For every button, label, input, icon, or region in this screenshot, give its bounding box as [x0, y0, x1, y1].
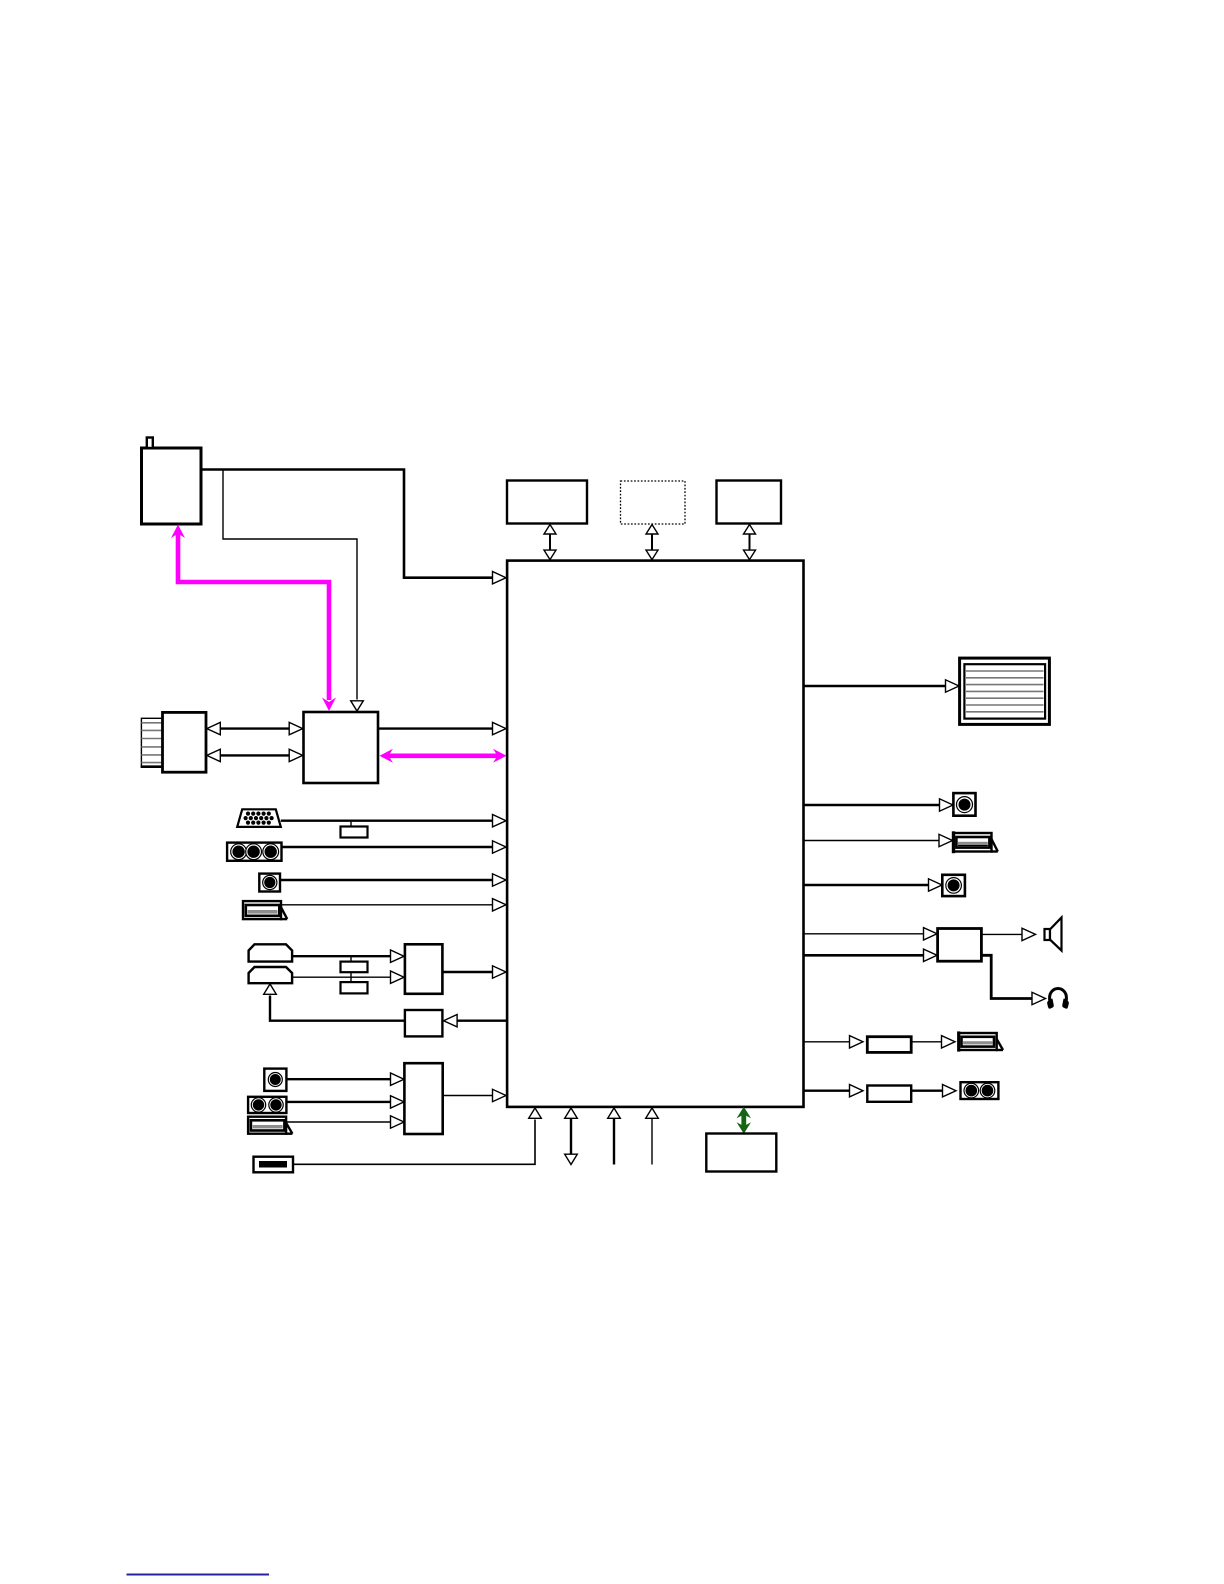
SCART connector 2 — [249, 967, 293, 983]
stereo RCA pair output — [961, 1082, 999, 1099]
wire SCART2 to AV decoder — [292, 971, 404, 983]
HDMI out buffer block — [867, 1037, 911, 1053]
component video jacks (YPbPr) — [227, 843, 281, 861]
audio amplifier block — [938, 929, 982, 962]
wire main IC to encoder block — [444, 1015, 507, 1027]
wire encoder to SCART2 — [264, 984, 405, 1021]
footer hyperlink rule — [127, 1574, 270, 1576]
video out RCA jack — [953, 793, 975, 816]
wire main IC to LCD panel — [804, 680, 960, 692]
HDMI input connector 2 — [248, 1117, 292, 1134]
AV decoder block — [405, 944, 443, 994]
wire buffer to stereo RCA out — [911, 1085, 956, 1097]
wire tuner to main IC — [201, 470, 506, 584]
audio out buffer block — [867, 1086, 911, 1102]
bus memory2 / main IC — [646, 525, 658, 560]
service port connector — [254, 1157, 294, 1173]
wire audio processor to main IC — [443, 1089, 506, 1101]
wire buffer to HDMI out 2 — [911, 1036, 955, 1048]
side AV connector (multi-pin) — [141, 712, 206, 772]
keypad block — [706, 1134, 776, 1172]
wire main IC to HDMI out 1 — [804, 834, 953, 846]
VGA DDC stub block — [341, 821, 368, 838]
memory block 2 (optional, dashed) — [621, 481, 686, 524]
speaker icon — [1045, 918, 1062, 951]
VGA D-sub connector — [237, 809, 281, 827]
audio RCA jack input — [264, 1069, 286, 1091]
wire composite to main IC — [280, 874, 506, 886]
wire SCART1 to AV decoder — [292, 950, 404, 962]
wire amp to speaker — [981, 928, 1035, 940]
bus memory3 / main IC — [744, 525, 756, 560]
wire HDMI2 to audio processor — [287, 1116, 405, 1128]
SCART termination stub blocks — [341, 956, 368, 993]
wire VGA to main IC — [281, 815, 506, 827]
memory block 1 — [507, 481, 587, 524]
wire main IC to audio out buffer — [804, 1085, 864, 1097]
headphone icon — [1047, 989, 1069, 1009]
SCART connector 1 — [249, 944, 293, 961]
tuner block U_TUNER — [142, 438, 202, 525]
composite out RCA jack — [942, 875, 965, 896]
wire amp to headphone jack — [981, 955, 1045, 1004]
wire main IC to video out RCA — [804, 799, 954, 811]
bottom control line 4 — [646, 1108, 659, 1165]
green bus main IC / keypad block — [737, 1107, 751, 1134]
wire tuner branch to AV switch — [223, 470, 363, 712]
wire main IC to HDMI out buffer — [804, 1036, 864, 1048]
wire main IC to audio amp input 1 — [804, 928, 938, 940]
wire stereo RCA to audio processor — [286, 1096, 404, 1108]
magenta control arrow tuner/AV switch — [171, 525, 336, 712]
magenta bus AV switch to main IC — [380, 749, 507, 763]
bottom control line 2 (bidirectional) — [565, 1108, 578, 1165]
audio processor block — [404, 1063, 442, 1134]
bus memory1 / main IC — [544, 525, 556, 560]
stereo RCA pair input — [248, 1097, 286, 1113]
HDMI output connector 2 — [959, 1031, 1003, 1051]
HDMI input connector 1 — [243, 901, 287, 919]
main IC block — [507, 561, 803, 1107]
bus side connector / AV switch upper — [207, 722, 303, 734]
composite RCA jack input — [259, 874, 280, 892]
wire main IC to audio amp input 2 — [804, 949, 938, 961]
bus side connector / AV switch lower — [207, 749, 303, 761]
wire component to main IC — [282, 841, 507, 853]
encoder block — [405, 1010, 443, 1036]
wire AV switch to main IC — [378, 722, 506, 734]
memory block 3 — [717, 481, 782, 524]
wire main IC to composite out RCA — [804, 879, 943, 891]
bottom control line 3 — [608, 1108, 621, 1165]
wire service port to main IC bottom — [293, 1108, 541, 1164]
wire AV decoder to main IC — [442, 966, 506, 978]
AV switch block — [304, 712, 379, 783]
HDMI output connector 1 — [954, 831, 998, 853]
wire audio RCA to audio processor — [286, 1073, 404, 1085]
LCD panel — [960, 658, 1050, 724]
wire HDMI1 to main IC — [282, 899, 507, 911]
